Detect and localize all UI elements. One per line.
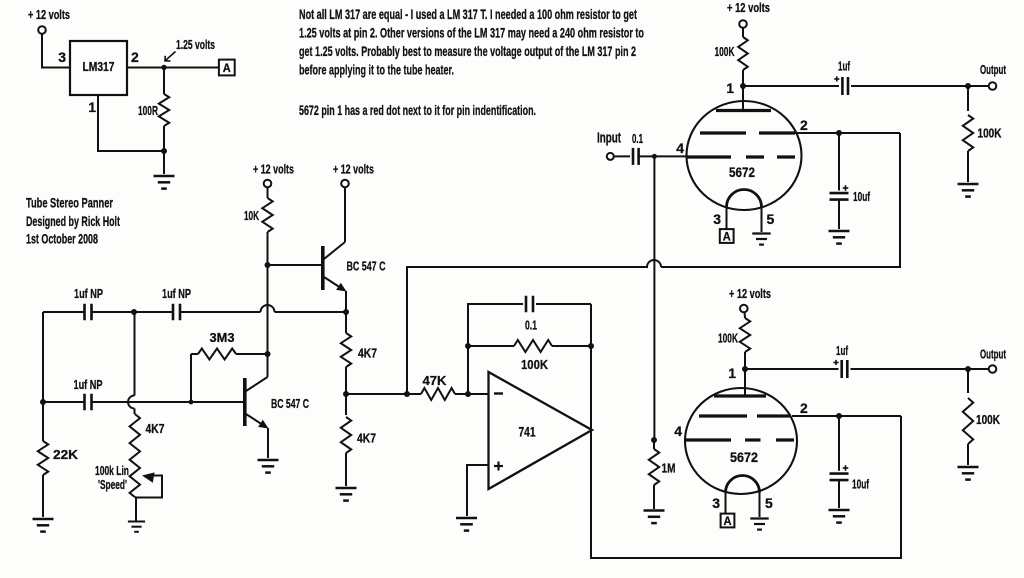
svg-text:10uf: 10uf [853,189,870,204]
svg-text:BC 547 C: BC 547 C [271,396,309,411]
svg-text:100K: 100K [978,126,1002,141]
svg-text:3: 3 [712,495,720,511]
svg-text:1uf NP: 1uf NP [74,287,103,301]
svg-text:5672 pin 1 has a red dot next: 5672 pin 1 has a red dot next to it for … [299,102,536,118]
svg-text:LM317: LM317 [83,59,115,74]
svg-text:5672: 5672 [729,165,755,180]
svg-text:2: 2 [131,49,139,65]
svg-text:1uf NP: 1uf NP [162,287,191,301]
svg-text:5: 5 [767,211,775,227]
svg-text:3: 3 [713,211,721,227]
svg-text:get 1.25 volts. Probably best: get 1.25 volts. Probably best to measure… [299,43,636,59]
svg-text:+ 12 volts: + 12 volts [333,162,374,177]
svg-text:5: 5 [765,495,773,511]
svg-text:Tube Stereo Panner: Tube Stereo Panner [26,195,113,211]
svg-text:+ 12 volts: + 12 volts [727,0,770,15]
svg-text:1: 1 [726,80,734,96]
svg-text:100K: 100K [715,44,735,59]
svg-text:4: 4 [674,423,682,439]
svg-text:1: 1 [88,99,96,115]
svg-text:10K: 10K [244,208,259,223]
svg-text:4: 4 [676,140,684,156]
svg-text:2: 2 [800,400,808,416]
svg-text:before applying it to the tube: before applying it to the tube heater. [299,62,454,78]
svg-text:1st October 2008: 1st October 2008 [26,231,98,247]
svg-text:Input: Input [597,131,621,147]
svg-text:4K7: 4K7 [357,431,376,446]
svg-text:3M3: 3M3 [210,330,235,345]
svg-text:1M: 1M [662,461,676,476]
svg-text:1uf: 1uf [838,59,850,74]
svg-text:100K: 100K [976,412,1000,427]
svg-text:0.1: 0.1 [632,131,643,146]
svg-text:100k Lin: 100k Lin [95,464,129,478]
svg-text:10uf: 10uf [852,477,869,492]
svg-text:100K: 100K [718,331,738,346]
svg-text:Not all LM 317 are equal - I u: Not all LM 317 are equal - I used a LM 3… [299,6,637,22]
svg-text:A: A [723,232,731,244]
svg-text:+ 12 volts: + 12 volts [253,162,294,177]
svg-text:+ 12 volts: + 12 volts [729,286,771,301]
svg-text:A: A [223,63,231,75]
svg-text:2: 2 [800,117,808,133]
svg-text:Output: Output [980,62,1006,77]
svg-text:1uf NP: 1uf NP [74,378,103,392]
svg-text:741: 741 [519,425,536,440]
svg-text:1.25 volts: 1.25 volts [176,37,215,52]
svg-text:Designed by Rick Holt: Designed by Rick Holt [26,213,120,229]
svg-text:BC 547 C: BC 547 C [347,259,386,274]
svg-text:A: A [724,516,732,528]
svg-text:100R: 100R [138,103,158,118]
svg-text:4K7: 4K7 [358,346,377,361]
svg-text:1: 1 [728,365,736,381]
svg-text:1uf: 1uf [836,343,848,358]
svg-text:Output: Output [980,347,1006,362]
svg-text:3: 3 [58,49,66,65]
svg-text:5672: 5672 [730,450,758,465]
svg-text:47K: 47K [423,373,448,388]
svg-text:4K7: 4K7 [146,421,165,436]
svg-text:0.1: 0.1 [525,318,537,333]
svg-text:100K: 100K [521,357,549,372]
svg-text:'Speed': 'Speed' [98,478,127,492]
svg-text:+ 12 volts: + 12 volts [28,7,70,22]
svg-text:1.25 volts at pin 2. Other ver: 1.25 volts at pin 2. Other versions of t… [299,25,644,41]
svg-text:22K: 22K [53,447,79,462]
